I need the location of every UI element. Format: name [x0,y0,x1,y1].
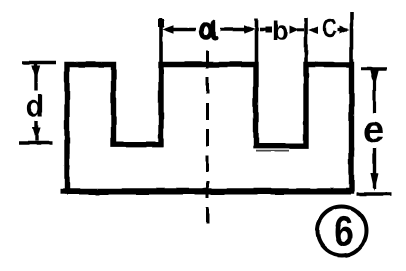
dim d: top tick [22,61,56,65]
dim a: left arrow [163,25,175,33]
bottom edge thickening [67,191,351,194]
label c [323,13,337,43]
dim c: left arrow [308,26,319,34]
figure number circle [318,207,367,256]
pencil smudge under notch2 floor [256,150,289,152]
dim a: right arrow [220,28,250,32]
dim d: bottom tick [19,141,52,145]
extension tick 4 (x=351.5, above right edge) [350,12,354,62]
dim d: upper arrow (pointing down, hanging from tick) [34,64,37,91]
extension tick 2 (x=256.5) [255,19,259,62]
svg-text:e: e [364,109,385,150]
svg-text:d: d [26,90,45,124]
dim b: left stub [260,28,272,32]
tick1 top blob [158,19,165,27]
dim b: right arrow [290,26,300,34]
dim c: right arrow [337,28,347,31]
svg-text:C: C [323,13,337,43]
dim e: upper arrow (pointing down, hanging from tick) [373,70,376,113]
dim d: lower arrow (pointing down) [35,121,38,141]
svg-text:b: b [272,16,288,46]
svg-text:6: 6 [334,207,354,255]
extension tick 1 (x=161) [159,18,163,62]
figure number 6 [334,207,354,255]
label a (single-storey, hand style) [202,22,216,39]
extension tick 3 (x=306) [304,18,308,62]
dim e: top tick [361,67,387,71]
profile outline (block with two top notches) [67,65,352,192]
dim e: bottom tick [357,192,392,196]
bottom edge overshoot [60,188,70,193]
dim e: lower arrow (pointing down) [373,148,376,189]
centerline (dash-dot vertical) [206,51,209,232]
